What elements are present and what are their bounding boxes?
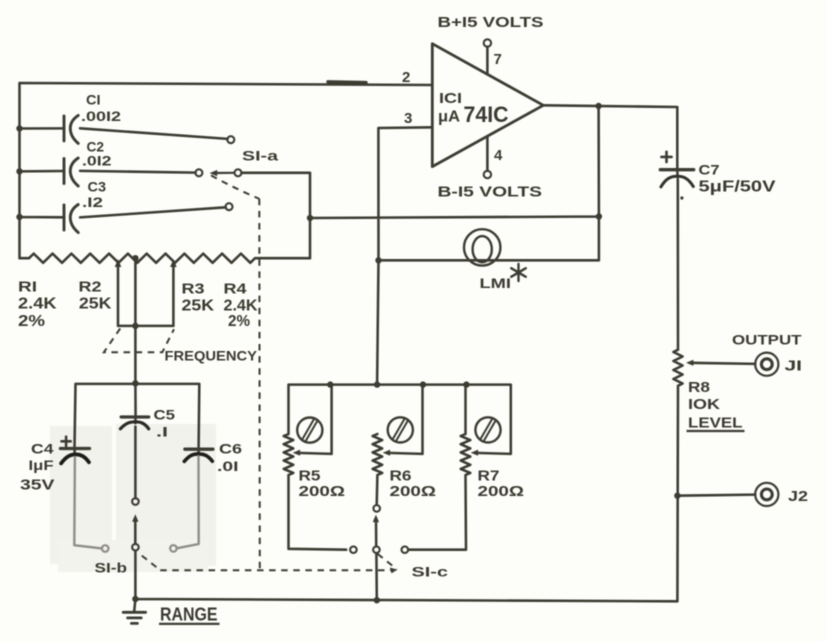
svg-text:.I: .I [156, 424, 168, 440]
svg-text:B+I5 VOLTS: B+I5 VOLTS [438, 15, 544, 31]
svg-text:C3: C3 [88, 179, 107, 195]
svg-text:IμF: IμF [29, 457, 55, 473]
svg-text:OUTPUT: OUTPUT [732, 331, 802, 347]
svg-text:CI: CI [86, 92, 101, 108]
svg-text:SI-c: SI-c [412, 565, 449, 580]
svg-text:25K: 25K [182, 298, 215, 315]
svg-text:2: 2 [402, 69, 410, 86]
svg-text:C5: C5 [154, 407, 176, 423]
svg-text:C7: C7 [699, 162, 720, 178]
svg-text:C6: C6 [219, 441, 242, 457]
svg-text:.00I2: .00I2 [81, 108, 121, 124]
svg-text:.I2: .I2 [82, 194, 103, 210]
svg-text:35V: 35V [20, 478, 55, 494]
svg-text:SI-b: SI-b [95, 561, 128, 576]
svg-text:LEVEL: LEVEL [688, 416, 743, 432]
svg-text:3: 3 [404, 110, 412, 127]
svg-text:SI-a: SI-a [242, 148, 278, 164]
svg-text:7: 7 [494, 51, 502, 68]
svg-text:R2: R2 [79, 279, 102, 295]
svg-text:μA: μA [438, 109, 460, 126]
svg-text:ICI: ICI [439, 90, 462, 107]
svg-text:5μF/50V: 5μF/50V [699, 179, 777, 196]
svg-text:IOK: IOK [688, 397, 721, 413]
svg-text:25K: 25K [79, 295, 112, 312]
svg-text:J2: J2 [788, 488, 808, 505]
svg-text:R5: R5 [299, 469, 321, 485]
svg-text:2%: 2% [228, 313, 250, 330]
svg-text:2.4K: 2.4K [224, 298, 259, 315]
svg-text:R7: R7 [478, 469, 500, 485]
svg-text:200Ω: 200Ω [478, 484, 525, 500]
svg-text:B-I5 VOLTS: B-I5 VOLTS [438, 185, 543, 201]
svg-text:R3: R3 [182, 282, 205, 298]
svg-text:RI: RI [18, 279, 37, 295]
svg-text:.0I: .0I [217, 458, 239, 474]
svg-text:C4: C4 [31, 441, 54, 457]
svg-text:74IC: 74IC [464, 102, 509, 127]
svg-text:LMI: LMI [480, 276, 512, 291]
svg-text:R4: R4 [224, 282, 247, 298]
svg-text:JI: JI [785, 358, 803, 375]
svg-text:.0I2: .0I2 [82, 153, 112, 169]
svg-text:RANGE: RANGE [160, 603, 218, 624]
svg-text:2.4K: 2.4K [18, 295, 57, 312]
svg-text:200Ω: 200Ω [299, 484, 346, 500]
svg-text:R8: R8 [688, 380, 710, 396]
svg-text:R6: R6 [390, 469, 412, 485]
svg-text:FREQUENCY: FREQUENCY [165, 348, 258, 364]
svg-text:4: 4 [494, 147, 503, 164]
svg-text:2%: 2% [18, 313, 45, 330]
svg-text:200Ω: 200Ω [390, 484, 437, 500]
